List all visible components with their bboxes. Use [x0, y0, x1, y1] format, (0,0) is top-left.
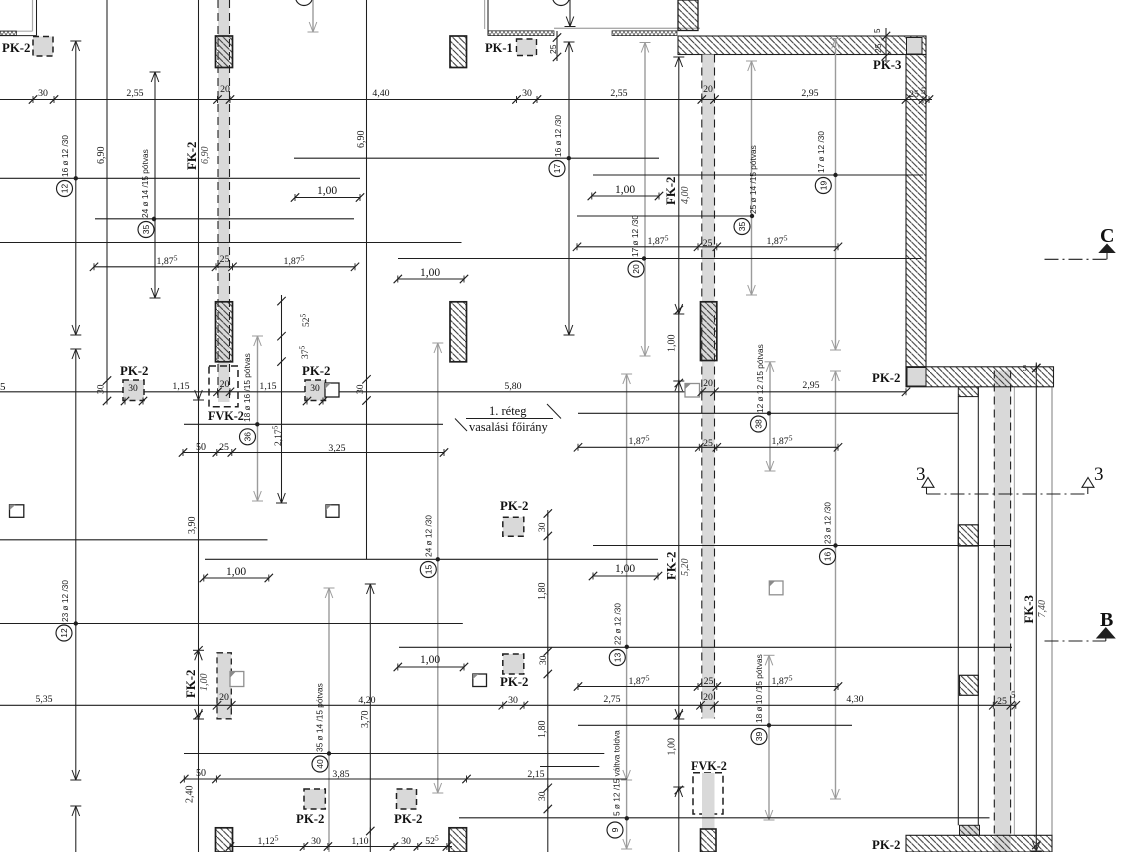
dim row y267 left [94, 266, 355, 268]
pad PK-1 box [517, 39, 537, 56]
dim row y247 [577, 246, 838, 248]
svg-text:4,40: 4,40 [372, 88, 389, 99]
rebar line y539 [0, 539, 268, 541]
formwork square at x325 [325, 383, 339, 397]
svg-text:30: 30 [538, 522, 548, 532]
svg-text:2,95: 2,95 [801, 88, 818, 99]
svg-text:1,00: 1,00 [615, 184, 635, 196]
dim row y447 right [578, 446, 838, 448]
svg-text:16 ø 12 /30: 16 ø 12 /30 [553, 115, 563, 157]
rebar line y175 right [593, 174, 923, 176]
wall line gray thin x1014 [1013, 387, 1015, 835]
rebar line y413 [578, 412, 958, 414]
svg-text:12: 12 [59, 628, 69, 638]
svg-text:30: 30 [97, 384, 107, 394]
formwork square x769 [769, 581, 783, 595]
svg-text:6,90: 6,90 [200, 147, 211, 165]
svg-text:1,00: 1,00 [226, 566, 246, 578]
svg-text:5: 5 [873, 28, 882, 33]
wall strip FK-2 left dashed edges [217, 0, 219, 402]
callout circle top partial [553, 0, 570, 6]
main grid line y705 [0, 704, 1016, 706]
terminator x1036 bottom [1033, 841, 1037, 851]
rebar line y242 [0, 242, 462, 244]
rebar line y817 [459, 817, 990, 819]
callout circle 9 [607, 822, 623, 838]
rebar drop line top [569, 0, 571, 27]
dim 1,00 y667 [398, 666, 464, 668]
dim row y452 left [183, 452, 444, 454]
pad PK-3 gray box [907, 38, 923, 55]
wall right vertical hatched [906, 55, 926, 367]
wall top-middle vertical outer [487, 0, 489, 36]
pad gray in PK-2 band [907, 368, 926, 387]
formwork square x230 [230, 672, 244, 687]
node dot y413 [767, 411, 771, 415]
tick x370 bottom [366, 827, 374, 835]
svg-text:3: 3 [1094, 464, 1104, 485]
svg-text:PK-2: PK-2 [872, 371, 900, 385]
grid line vertical x107 [106, 0, 108, 402]
svg-text:6,90: 6,90 [96, 147, 107, 165]
dim 1,00 line mid y196 [592, 195, 659, 197]
svg-text:12 ø 12 /15 pótvas: 12 ø 12 /15 pótvas [755, 344, 765, 413]
arrow on x198 at main line [195, 390, 199, 400]
rebar line y725 [578, 724, 852, 726]
svg-text:20: 20 [631, 264, 641, 274]
svg-text:24 ø 12 /30: 24 ø 12 /30 [424, 515, 434, 557]
wall band bottom hatched [906, 835, 1052, 852]
svg-text:5: 5 [1023, 363, 1027, 373]
dim line vertical x155 [154, 72, 156, 298]
column hatched x450 mid [450, 302, 467, 362]
column hatched bottom left [216, 828, 233, 852]
svg-text:1,00: 1,00 [199, 674, 210, 692]
dim 30 left on y99 [29, 95, 37, 103]
wall notch below band [958, 387, 978, 397]
rebar line y219 left [95, 218, 354, 220]
svg-text:25: 25 [909, 89, 919, 100]
dim terminators x198 lower [195, 650, 199, 660]
wall strip FK-3 dashed edges [993, 371, 995, 836]
svg-text:PK-2: PK-2 [872, 838, 900, 852]
column hatched left top [216, 36, 233, 68]
svg-text:17 ø 12 /30: 17 ø 12 /30 [816, 131, 826, 173]
svg-text:FK-2: FK-2 [185, 142, 199, 170]
wall corner top-left outer [36, 0, 38, 36]
svg-text:PK-2: PK-2 [296, 812, 324, 826]
svg-text:5: 5 [0, 381, 6, 393]
svg-text:FK-2: FK-2 [184, 670, 198, 698]
node dot y725 [767, 723, 771, 727]
dim 1,00 y576 mid [593, 575, 658, 577]
wall strip in FVK-2 lower [702, 773, 715, 829]
dim row y779 [184, 778, 627, 780]
svg-text:30: 30 [539, 655, 549, 665]
svg-text:25: 25 [219, 442, 229, 453]
pad FVK-2 outline [209, 366, 238, 407]
pad PK-2 box top-left [33, 37, 53, 57]
column hatched left mid [216, 302, 233, 362]
pad PK-2 box bottom x304 [304, 789, 325, 809]
svg-text:36: 36 [243, 432, 253, 442]
svg-text:7,40: 7,40 [1037, 600, 1048, 618]
wall band top horizontal hatched [678, 36, 926, 55]
svg-text:5,20: 5,20 [680, 559, 691, 577]
svg-text:25 ø 14 /15 pótvas: 25 ø 14 /15 pótvas [748, 145, 758, 214]
svg-text:35: 35 [737, 222, 747, 232]
wall block hatched x958 mid [958, 525, 978, 546]
svg-text:13: 13 [612, 653, 622, 663]
rebar line y424 [184, 423, 443, 425]
wall corner top-left inner gray [32, 0, 34, 31]
svg-text:1. réteg: 1. réteg [489, 404, 527, 418]
column hatched x450 top [450, 36, 467, 68]
callout circle 38 [751, 416, 767, 432]
pad FVK-2 outline lower [693, 773, 723, 814]
wall strip FK-2 left gray [218, 0, 230, 402]
pad PK-2 box x123 [123, 380, 144, 401]
callout circle 15 [420, 562, 436, 578]
rebar line gray x835 top [835, 39, 837, 351]
column hatched bottom x449 [449, 828, 467, 852]
svg-text:vasalási főirány: vasalási főirány [469, 420, 549, 434]
terminator x678 y314 [675, 304, 679, 314]
svg-text:FK-3: FK-3 [1022, 595, 1036, 623]
svg-text:18 ø 10 /15 pótvas: 18 ø 10 /15 pótvas [754, 654, 764, 723]
svg-text:25: 25 [220, 254, 230, 265]
column hatched mid [701, 302, 716, 315]
node dot rebar y175 [833, 173, 837, 177]
wall band PK-2 right hatched [906, 367, 1054, 387]
rebar line y559 [205, 558, 658, 560]
dim line vertical x281 [281, 295, 283, 503]
svg-text:PK-2: PK-2 [302, 364, 330, 378]
svg-text:PK-1: PK-1 [485, 41, 513, 55]
svg-text:5: 5 [1011, 690, 1016, 700]
callout circle 13 [609, 650, 625, 666]
ticks x547 [544, 509, 552, 517]
svg-text:3: 3 [916, 464, 926, 485]
rebar line y158 [294, 157, 659, 159]
formwork square x9 [10, 505, 24, 518]
callout circle 12 upper [57, 181, 73, 197]
dim 30 vertical box left [103, 376, 111, 384]
svg-text:1,00: 1,00 [667, 738, 678, 756]
rebar line gray x835 lower [835, 371, 837, 799]
wall pier top-right above band [678, 0, 698, 31]
svg-text:30: 30 [310, 384, 320, 394]
node dot y559 [436, 557, 440, 561]
callout circle 12 lower [56, 625, 72, 641]
svg-text:PK-2: PK-2 [120, 364, 148, 378]
svg-text:1,00: 1,00 [317, 185, 337, 197]
callout circle 16 [820, 549, 836, 565]
svg-text:50: 50 [196, 442, 206, 453]
rebar line y258 [398, 258, 921, 260]
svg-text:23 ø 12 /30: 23 ø 12 /30 [60, 580, 70, 622]
svg-text:FVK-2: FVK-2 [691, 759, 727, 773]
rebar line y545 [593, 545, 1011, 547]
node dot y258 [642, 256, 646, 260]
pad PK-2 box x502 [503, 517, 524, 536]
callout circle 19 [815, 178, 831, 194]
beam line vertical x1036 [1035, 363, 1037, 852]
arrow top x678 [675, 57, 679, 67]
svg-text:PK-2: PK-2 [2, 41, 30, 55]
svg-text:1,15: 1,15 [259, 381, 276, 392]
callout circle partial top x304 [296, 0, 313, 6]
dim line vertical x547 [547, 513, 549, 852]
callout circle 35 mid [734, 219, 750, 235]
svg-text:3,85: 3,85 [332, 769, 349, 780]
rebar line gray x645 [644, 43, 646, 357]
column hatched bottom mid [701, 829, 717, 852]
dim 1,00 line y279 [398, 278, 464, 280]
terminator x678 y787 [675, 787, 679, 797]
callout circle 36 [240, 429, 256, 445]
dim row bottom y846 [230, 846, 452, 848]
rebar line gray x626 [626, 374, 628, 849]
dim 20 ticks strip mid [698, 95, 706, 103]
svg-text:5,80: 5,80 [504, 381, 521, 392]
wall strip FK-2 mid dashed edges [701, 55, 703, 719]
rebar line y216 [577, 215, 752, 217]
dim row y686 [578, 686, 838, 688]
svg-text:PK-3: PK-3 [873, 58, 901, 72]
callout circle 17 [549, 161, 565, 177]
node dot y753 [327, 751, 331, 755]
svg-text:17 ø 12 /30: 17 ø 12 /30 [630, 215, 640, 257]
svg-text:2,40: 2,40 [185, 786, 196, 804]
svg-text:FVK-2: FVK-2 [208, 409, 244, 423]
node dot y545 [833, 543, 837, 547]
svg-text:30: 30 [522, 88, 532, 99]
svg-text:2,75: 2,75 [603, 694, 620, 705]
pad PK-2 box x305 [305, 380, 326, 401]
svg-text:4,30: 4,30 [846, 694, 863, 705]
svg-text:2,55: 2,55 [126, 88, 143, 99]
svg-text:25: 25 [997, 696, 1007, 707]
node dot y219 [152, 217, 156, 221]
svg-text:25: 25 [703, 438, 713, 449]
svg-text:C: C [1100, 225, 1114, 247]
svg-text:3,90: 3,90 [187, 517, 198, 535]
svg-text:16 ø 12 /30: 16 ø 12 /30 [60, 135, 70, 177]
rebar line gray x313 top [312, 0, 314, 32]
rebar line gray x751 [751, 61, 753, 295]
svg-text:2,15: 2,15 [527, 769, 544, 780]
svg-text:25: 25 [703, 238, 713, 249]
svg-text:6,90: 6,90 [356, 131, 367, 149]
wall insulation band top-left [0, 31, 17, 35]
svg-text:12: 12 [60, 184, 70, 194]
svg-text:30: 30 [538, 791, 548, 801]
dim line vertical x370 lower [369, 584, 371, 852]
tick x1036 top [1032, 364, 1040, 372]
wall line vertical x978 [977, 387, 979, 835]
svg-text:1,10: 1,10 [351, 836, 368, 847]
rebar line y766 short [540, 766, 599, 768]
tick main y391 right end [902, 388, 910, 396]
dim 1,00 line left y197 [295, 197, 360, 199]
dim 25-5 corner vertical [885, 28, 887, 62]
svg-text:50: 50 [196, 768, 206, 779]
svg-text:20: 20 [703, 378, 713, 389]
svg-text:22 ø 12 /30: 22 ø 12 /30 [613, 603, 623, 645]
wall insulation band middle-right [612, 31, 677, 36]
rebar line y647 [399, 646, 1012, 648]
svg-text:B: B [1100, 609, 1113, 631]
svg-text:30: 30 [401, 836, 411, 847]
terminator x678 y381 [675, 381, 679, 391]
svg-text:35 ø 14 /15 pótvas: 35 ø 14 /15 pótvas [315, 683, 325, 752]
dim line vertical x76 lower [75, 349, 77, 780]
rebar line y623 [0, 623, 463, 625]
node dot y216 [750, 214, 754, 218]
pad PK-2 box x502 lower [503, 654, 524, 674]
dim line vertical x569 [568, 42, 570, 335]
terminator x678 y715 [675, 709, 679, 719]
svg-text:30: 30 [356, 384, 366, 394]
svg-text:3,25: 3,25 [328, 443, 345, 454]
svg-text:5: 5 [921, 86, 926, 96]
dim line vertical x76 bottom [75, 806, 77, 852]
pad PK-2 box bottom x396 [397, 789, 417, 809]
svg-text:4,00: 4,00 [680, 187, 691, 205]
formwork square at x685 [685, 384, 700, 398]
svg-text:15: 15 [423, 565, 433, 575]
svg-text:1,00: 1,00 [420, 654, 440, 666]
callout circle 39 [751, 729, 767, 745]
arrow top x370 [367, 584, 371, 594]
wall line gray x1052 [1051, 387, 1053, 835]
formwork square x326 [326, 505, 339, 518]
formwork square x472 [473, 674, 487, 687]
svg-text:5,35: 5,35 [35, 694, 52, 705]
svg-text:1,80: 1,80 [537, 721, 548, 739]
wall line vertical x958 [957, 397, 959, 826]
section line 3-3 dashdot [927, 493, 1088, 495]
svg-text:9: 9 [610, 827, 620, 832]
svg-text:39: 39 [754, 732, 764, 742]
grid line horizontal y99 [0, 99, 932, 101]
svg-text:1,00: 1,00 [420, 267, 440, 279]
gray notch above bottom band [960, 825, 980, 835]
svg-text:30: 30 [38, 88, 48, 99]
dim 1,00 y578 left [204, 577, 269, 579]
dim 25-5 right end y99 [902, 95, 910, 103]
door header line gray [554, 27, 700, 29]
svg-text:18 ø 16 /15 pótvas: 18 ø 16 /15 pótvas [242, 353, 252, 422]
rebar line y178 [0, 177, 360, 179]
svg-text:2,95: 2,95 [802, 380, 819, 391]
callout circle 20 [628, 261, 644, 277]
wall block hatched x959 lower [960, 675, 979, 695]
wall strip FK-2 mid gray [702, 55, 715, 719]
wall top-middle vertical inner gray [484, 0, 486, 29]
callout circle 40 [312, 756, 328, 772]
edge line vertical x198 top [198, 0, 200, 852]
dim 25 vertical at PK-1 [556, 31, 558, 61]
dim 30 h at x508 [499, 701, 507, 709]
callout circle 35 left [138, 222, 154, 238]
svg-text:17: 17 [552, 164, 562, 174]
svg-text:FK-2: FK-2 [665, 552, 679, 580]
wall strip piece low left gray [217, 653, 231, 719]
svg-text:20: 20 [220, 84, 230, 95]
node dot rebar y158 [567, 156, 571, 160]
svg-text:PK-2: PK-2 [394, 812, 422, 826]
rebar line gray x329 [328, 588, 330, 852]
svg-text:35: 35 [141, 225, 151, 235]
svg-text:30: 30 [128, 384, 138, 394]
grid line vertical x366 [366, 0, 368, 559]
dim line vertical x76 [75, 41, 77, 335]
node dot y817 [625, 816, 629, 820]
rebar line y753 [184, 753, 604, 755]
wall line vertical x678 [678, 57, 680, 852]
svg-text:25: 25 [873, 43, 883, 53]
svg-text:PK-2: PK-2 [500, 499, 528, 513]
dim 30 mid on y99 [512, 95, 520, 103]
svg-text:25: 25 [704, 676, 714, 687]
svg-text:20: 20 [703, 84, 713, 95]
svg-text:1,00: 1,00 [667, 335, 678, 353]
svg-text:25: 25 [548, 44, 558, 54]
dim 20 ticks strip left [213, 95, 221, 103]
svg-text:38: 38 [754, 419, 764, 429]
svg-text:1,80: 1,80 [537, 583, 548, 601]
main grid line y391 [0, 391, 906, 393]
svg-text:1,15: 1,15 [172, 381, 189, 392]
svg-text:30: 30 [508, 695, 518, 706]
rebar line gray x770 top [769, 362, 771, 471]
svg-text:PK-2: PK-2 [500, 675, 528, 689]
svg-text:2,55: 2,55 [610, 88, 627, 99]
svg-text:FK-2: FK-2 [664, 177, 678, 205]
svg-text:4,20: 4,20 [358, 695, 375, 706]
wall insulation band middle-left [488, 31, 554, 36]
svg-text:16: 16 [823, 552, 833, 562]
svg-text:24 ø 14 /15 pótvas: 24 ø 14 /15 pótvas [140, 149, 150, 218]
rebar line gray x437 [437, 343, 439, 793]
svg-text:3,70: 3,70 [360, 711, 371, 729]
svg-text:1,00: 1,00 [615, 563, 635, 575]
dim 30 vertical x366 [362, 375, 370, 383]
svg-text:5 ø 12 /15 váltva toldva: 5 ø 12 /15 váltva toldva [612, 730, 622, 816]
node dot y647 [625, 645, 629, 649]
svg-text:19: 19 [818, 181, 828, 191]
rebar line gray x257 [257, 336, 259, 501]
svg-text:40: 40 [315, 759, 325, 769]
svg-text:23 ø 12 /30: 23 ø 12 /30 [823, 502, 833, 544]
svg-text:30: 30 [311, 836, 321, 847]
wall strip FK-3 right gray [994, 371, 1010, 852]
rebar line gray x770 lower [768, 655, 770, 820]
